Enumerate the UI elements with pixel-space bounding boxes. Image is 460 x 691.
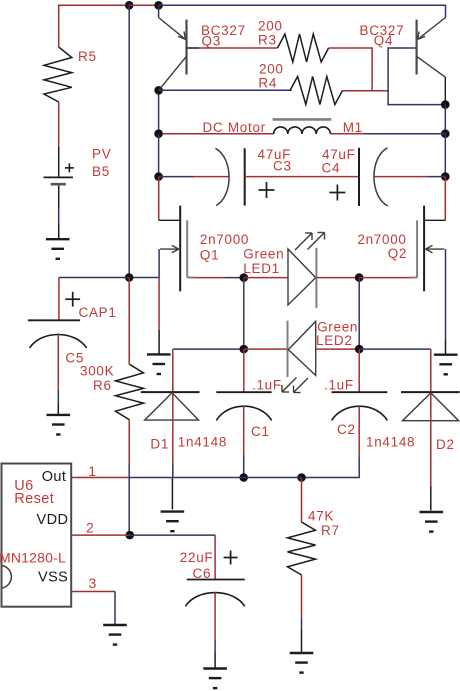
- node junction Q4 collector / right rail: [441, 100, 450, 109]
- wire Out row (pin 1 of U6): [71, 477, 301, 479]
- svg-text:C4: C4: [322, 161, 341, 176]
- label DC Motor: [203, 120, 266, 135]
- svg-text:C1: C1: [251, 424, 270, 439]
- wire R4 right (red): [343, 90, 389, 92]
- svg-text:2: 2: [86, 520, 95, 536]
- label 22uF: [180, 550, 214, 565]
- svg-text:Q4: Q4: [374, 33, 393, 48]
- svg-text:PV: PV: [92, 147, 111, 162]
- label 47K: [308, 509, 334, 524]
- label C3: [273, 159, 292, 174]
- wire right rail upper (blue): [444, 105, 446, 134]
- label U6: [14, 478, 33, 494]
- svg-text:47K: 47K: [308, 509, 334, 524]
- wire LED2 anode (red): [316, 348, 360, 350]
- label 200 (R3): [258, 19, 283, 34]
- wire motor row right (red): [330, 133, 445, 135]
- ground (Q1 gate): [147, 354, 171, 374]
- svg-text:200: 200: [259, 62, 284, 77]
- svg-text:M1: M1: [343, 120, 363, 135]
- wire R7 top (red): [301, 478, 303, 523]
- wire Q2 drain: [424, 177, 445, 221]
- svg-text:D1: D1: [150, 436, 169, 451]
- wire cap row left: [159, 176, 230, 178]
- svg-text:MN1280-L: MN1280-L: [0, 550, 66, 566]
- node junction left rail / Q1 gate: [125, 273, 134, 282]
- ground (pin 3 VSS): [103, 625, 127, 645]
- capacitor C4 (47uF polarized): [329, 148, 387, 206]
- label 200 (R4): [259, 62, 284, 77]
- wire inner-left rail lower (blue): [158, 134, 160, 177]
- node junction inner-left rail / motor row: [154, 129, 163, 138]
- svg-text:2n7000: 2n7000: [200, 232, 249, 247]
- label M1: [343, 120, 363, 135]
- svg-text:CAP1: CAP1: [79, 305, 117, 320]
- label C5: [65, 351, 84, 366]
- node junction Q1 source / C1 column: [240, 273, 249, 282]
- label 1n4148 (D2): [366, 435, 415, 450]
- svg-text:R6: R6: [93, 378, 112, 393]
- wire LED2 row left (blue): [173, 348, 244, 350]
- svg-text:.1uF: .1uF: [324, 378, 354, 393]
- wire C2 top (red): [358, 349, 360, 392]
- transistor Q2 (2n7000 MOSFET): [411, 206, 445, 292]
- label pin 3: [89, 575, 98, 591]
- wire D2 anode down (red): [430, 393, 432, 510]
- svg-text:.1uF: .1uF: [252, 378, 282, 393]
- label .1uF (C2): [324, 378, 354, 393]
- LED LED2 (green): [282, 321, 316, 393]
- node junction top rail / left rail: [125, 1, 134, 10]
- wire R4 row left (blue): [159, 89, 292, 91]
- transistor Q4 (BC327 PNP): [417, 18, 446, 105]
- label B5: [92, 164, 110, 179]
- ground (C5): [47, 415, 71, 435]
- svg-text:VSS: VSS: [38, 569, 68, 585]
- label 2n7000 (Q2): [357, 232, 406, 247]
- wire LED2 cathode (red): [244, 348, 288, 350]
- svg-text:D2: D2: [436, 437, 455, 452]
- node junction pin2 row / R6: [126, 531, 135, 540]
- label 47uF (C4): [322, 147, 356, 162]
- label Q1: [200, 248, 219, 263]
- svg-text:R7: R7: [321, 523, 340, 538]
- wire R3 right elbow down to R4 row: [329, 48, 389, 91]
- label C1: [251, 424, 270, 439]
- label C6: [193, 566, 212, 581]
- wire D2 column top (red): [430, 349, 432, 392]
- svg-text:DC Motor: DC Motor: [203, 120, 266, 135]
- diode D1 (1n4148): [141, 392, 200, 420]
- label pin 2: [86, 520, 95, 536]
- capacitor C6 (22uF polarized): [185, 551, 244, 607]
- label LED2: [316, 333, 353, 348]
- node junction top rail / Q3 emitter: [154, 1, 163, 10]
- motor M1 (inductor symbol): [273, 119, 332, 134]
- label R6: [93, 378, 112, 393]
- capacitor C1 (.1uF): [216, 392, 271, 420]
- label R7: [321, 523, 340, 538]
- label Q3: [202, 34, 221, 49]
- label .1uF (C1): [252, 378, 282, 393]
- ground (battery): [46, 239, 70, 259]
- wire C1 column upper (blue): [243, 278, 245, 350]
- svg-text:200: 200: [258, 19, 283, 34]
- wire R5 to battery B5: [58, 102, 60, 177]
- label 1n4148 (D1): [178, 435, 227, 450]
- svg-text:C5: C5: [65, 351, 84, 366]
- label Q4: [374, 33, 393, 48]
- IC U6 (MN1280-L reset): [2, 464, 72, 607]
- resistor R6: [116, 364, 144, 420]
- node junction LED2 row / C1 column: [240, 345, 249, 354]
- label Out: [42, 469, 67, 485]
- wire right rail lower (blue): [444, 134, 446, 177]
- node junction LED2 row / C2 column: [355, 345, 364, 354]
- ground (R7): [290, 653, 314, 673]
- wire pin 2 row (red then blue): [71, 534, 215, 536]
- ground (D1 column): [161, 512, 185, 532]
- wire LED2 row right (blue): [359, 348, 431, 350]
- label 2n7000 (Q1): [200, 232, 249, 247]
- LED LED1 (green): [288, 233, 325, 308]
- wire battery to ground: [58, 186, 60, 239]
- wire Q1 gate to ground: [158, 278, 160, 355]
- svg-text:1n4148: 1n4148: [178, 435, 227, 450]
- resistor R7: [288, 522, 316, 575]
- wire Q1 drain: [159, 177, 181, 221]
- label 300K: [80, 364, 114, 379]
- svg-text:1n4148: 1n4148: [366, 435, 415, 450]
- wire top rail left (red): [59, 5, 130, 47]
- label PV: [92, 147, 111, 162]
- capacitor CAP1 / C5 (polarized): [28, 292, 87, 348]
- svg-text:22uF: 22uF: [180, 550, 214, 565]
- wire C1 bottom (red/blue): [243, 406, 245, 477]
- svg-text:Q2: Q2: [388, 246, 407, 261]
- node junction inner-left rail / cap row: [154, 172, 163, 181]
- wire inner-left rail upper (blue): [158, 90, 160, 133]
- node junction Q3 collector / R4 row: [154, 86, 163, 95]
- svg-text:R5: R5: [78, 49, 97, 64]
- wire D1 column top (red): [172, 349, 174, 392]
- wire cap row middle (red): [245, 176, 359, 178]
- wire R6 top (red): [128, 278, 130, 365]
- transistor Q1 (2n7000 MOSFET): [160, 206, 194, 292]
- svg-text:R3: R3: [258, 33, 277, 48]
- wire Q2 source to LED1 cathode (red): [359, 277, 411, 279]
- resistor R3: [278, 34, 329, 62]
- wire C2 bottom elbow to Out row: [302, 406, 360, 477]
- ground (C6): [203, 669, 227, 689]
- label Q2: [388, 246, 407, 261]
- wire D1 anode down (red/blue): [172, 393, 174, 478]
- label R3: [258, 33, 277, 48]
- wire D1 ground stub (black): [171, 478, 173, 510]
- label C2: [337, 422, 356, 437]
- ground (Q2 gate): [434, 355, 458, 375]
- wire Q4 base elbow (blue): [388, 48, 445, 105]
- svg-text:B5: B5: [92, 164, 110, 179]
- svg-text:C3: C3: [273, 159, 292, 174]
- wire C2 column upper (blue): [358, 278, 360, 350]
- svg-text:LED2: LED2: [316, 333, 353, 348]
- wire Q1 gate (blue): [129, 249, 159, 277]
- label BC327 (Q4): [360, 23, 405, 38]
- label MN1280-L: [0, 550, 66, 566]
- label D2: [436, 437, 455, 452]
- capacitor C2 (.1uF): [332, 392, 388, 420]
- node junction right rail / cap row: [441, 172, 450, 181]
- label D1: [150, 436, 169, 451]
- label CAP1: [79, 305, 117, 320]
- label Green (LED1): [243, 247, 284, 262]
- label BC327 (Q3): [201, 23, 246, 38]
- wire motor row left (red): [163, 133, 274, 135]
- svg-text:R4: R4: [258, 76, 277, 91]
- label VSS: [38, 569, 68, 585]
- svg-text:3: 3: [89, 575, 98, 591]
- label R5: [78, 49, 97, 64]
- wire C1 top (red): [243, 349, 245, 392]
- svg-text:VDD: VDD: [37, 512, 69, 528]
- wire R7 bottom to ground: [301, 575, 303, 653]
- label VDD: [37, 512, 69, 528]
- svg-text:Green: Green: [243, 247, 284, 262]
- resistor R5: [44, 47, 72, 102]
- wire R6 bottom (red/blue): [128, 420, 130, 535]
- svg-text:Q1: Q1: [200, 248, 219, 263]
- wire C5 to ground: [57, 333, 59, 414]
- label pin 1: [88, 463, 97, 479]
- wire Q3 base to R3: [199, 47, 278, 49]
- wire C6 to ground: [214, 592, 216, 668]
- svg-text:1: 1: [88, 463, 97, 479]
- wire C6 top (red): [214, 535, 216, 579]
- svg-text:300K: 300K: [80, 364, 114, 379]
- wire LED1 anode (red): [244, 277, 288, 279]
- wire Q2 gate to ground (blue): [445, 249, 447, 354]
- diode D2 (1n4148): [401, 392, 460, 421]
- ground (D2): [420, 512, 444, 532]
- transistor Q3 (BC327 PNP): [159, 5, 199, 90]
- wire top rail right (blue) to Q4 emitter: [159, 5, 446, 17]
- label Green (LED2): [317, 319, 358, 334]
- node junction Out row / C1: [239, 473, 248, 482]
- label 47uF (C3): [258, 147, 292, 162]
- wire top rail middle (red): [129, 4, 158, 6]
- svg-text:LED1: LED1: [243, 261, 280, 276]
- svg-text:C6: C6: [193, 566, 212, 581]
- wire cap row right: [374, 176, 445, 178]
- svg-text:Q3: Q3: [202, 34, 221, 49]
- svg-text:Out: Out: [42, 469, 67, 485]
- capacitor C3 (47uF polarized): [215, 148, 274, 205]
- label LED1: [243, 261, 280, 276]
- svg-text:Reset: Reset: [14, 491, 54, 507]
- label C4: [322, 161, 341, 176]
- wire left rail (blue): [128, 5, 130, 277]
- wire Q1 source to LED1 (red): [194, 277, 244, 279]
- resistor R4: [290, 77, 343, 105]
- wire pin 3 stub: [71, 592, 115, 625]
- node junction LED1 cathode / C2 column: [355, 273, 364, 282]
- svg-text:C2: C2: [337, 422, 356, 437]
- battery B5 (PV cell): [44, 163, 74, 184]
- node junction Out row / R7: [297, 473, 306, 482]
- label Reset: [14, 491, 54, 507]
- label R4: [258, 76, 277, 91]
- wire LED1 cathode (red): [316, 277, 359, 279]
- node junction right rail / motor row: [441, 129, 450, 138]
- wire CAP1 branch (blue then red): [59, 278, 129, 321]
